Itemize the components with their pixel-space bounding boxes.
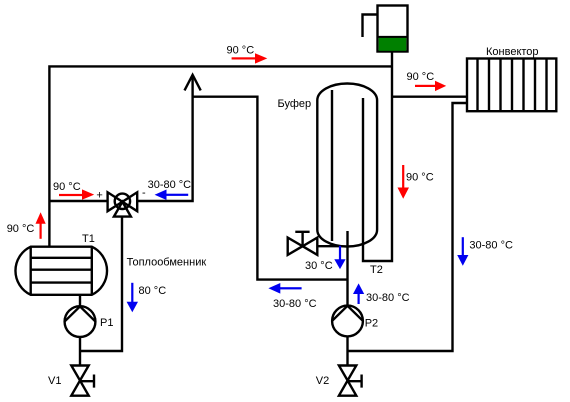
blue arrow: 30-80 °C down convector return — [457, 237, 468, 266]
pump P2 — [332, 306, 363, 337]
svg-text:90 °C: 90 °C — [407, 71, 435, 83]
wire: T1 bottom to pump P1 — [79, 295, 81, 307]
valve at buffer (30 °C drain) — [288, 232, 340, 255]
blue arrow: 30-80 °C up into P2 — [353, 283, 364, 304]
buffer tank (Буфер) — [317, 84, 377, 247]
red arrow: 90 °C top supply — [232, 53, 268, 63]
expansion tank — [378, 6, 408, 52]
svg-text:90 °C: 90 °C — [406, 172, 434, 184]
wire: main supply top line from left riser to expansion pipe — [49, 66, 392, 245]
wire: convector supply — [392, 95, 467, 97]
blue arrow: 30-80 °C into valve right — [155, 190, 189, 201]
svg-text:30-80 °C: 30-80 °C — [273, 298, 317, 310]
svg-text:Конвектор: Конвектор — [486, 46, 539, 58]
valve V2 — [339, 366, 362, 396]
svg-text:T2: T2 — [370, 264, 383, 276]
red arrow: 90 °C into 3-way valve — [59, 189, 94, 199]
3-way mixing valve — [108, 192, 138, 216]
svg-text:V2: V2 — [316, 375, 329, 387]
red arrow: 90 °C down charge pipe — [398, 165, 410, 199]
red arrow: 90 °C up to T1 — [36, 212, 46, 239]
svg-text:-: - — [142, 187, 146, 199]
blue arrow: 80 °C down — [127, 283, 138, 312]
node: open arrowhead up on riser x=192 — [185, 75, 201, 91]
svg-text:T1: T1 — [82, 233, 95, 245]
wire: 3-way valve bottom port down and to P1/V1 pipe — [80, 218, 122, 352]
svg-text:Буфер: Буфер — [278, 98, 312, 110]
svg-text:30-80 °C: 30-80 °C — [366, 292, 410, 304]
pump P1 — [65, 306, 96, 337]
wire: convector return down and across to P2 column — [348, 103, 468, 351]
wire: expansion/charge pipe down right of buffer, elbow into tank internal pipe — [363, 52, 392, 261]
wire: expansion tank overflow — [363, 15, 378, 38]
svg-text:P1: P1 — [100, 317, 113, 329]
svg-text:+: + — [96, 189, 102, 201]
svg-text:30 °C: 30 °C — [305, 260, 333, 272]
svg-text:90 °C: 90 °C — [53, 181, 81, 193]
wire: buffer bottom outlet to pump P2 — [346, 231, 348, 306]
wire: 3-way valve right port to riser x=192 — [138, 76, 193, 201]
svg-text:Топлообменник: Топлообменник — [127, 257, 207, 269]
convector (Конвектор) — [467, 59, 556, 112]
wire: branch from riser to down-comer x=257 and to buffer return — [193, 97, 347, 280]
wire: pump P1 to valve V1 — [79, 337, 81, 366]
svg-text:30-80 °C: 30-80 °C — [148, 179, 192, 191]
svg-text:90 °C: 90 °C — [7, 223, 35, 235]
wire: feed to 3-way valve left port — [49, 200, 107, 202]
red arrow: 90 °C to convector — [415, 81, 446, 91]
heat exchanger T1 — [15, 247, 107, 295]
svg-text:90 °C: 90 °C — [227, 44, 255, 56]
blue arrow: 30 °C down at buffer outlet — [334, 246, 345, 269]
svg-text:V1: V1 — [48, 375, 61, 387]
wire: buffer inner left stratification pipe — [331, 90, 333, 241]
blue arrow: 30-80 °C left on buffer return — [268, 283, 301, 294]
valve V1 — [71, 366, 94, 396]
svg-text:80 °C: 80 °C — [139, 285, 167, 297]
svg-text:30-80 °C: 30-80 °C — [469, 239, 513, 251]
wire: pump P2 to valve V2 — [346, 337, 348, 367]
svg-text:P2: P2 — [365, 318, 378, 330]
